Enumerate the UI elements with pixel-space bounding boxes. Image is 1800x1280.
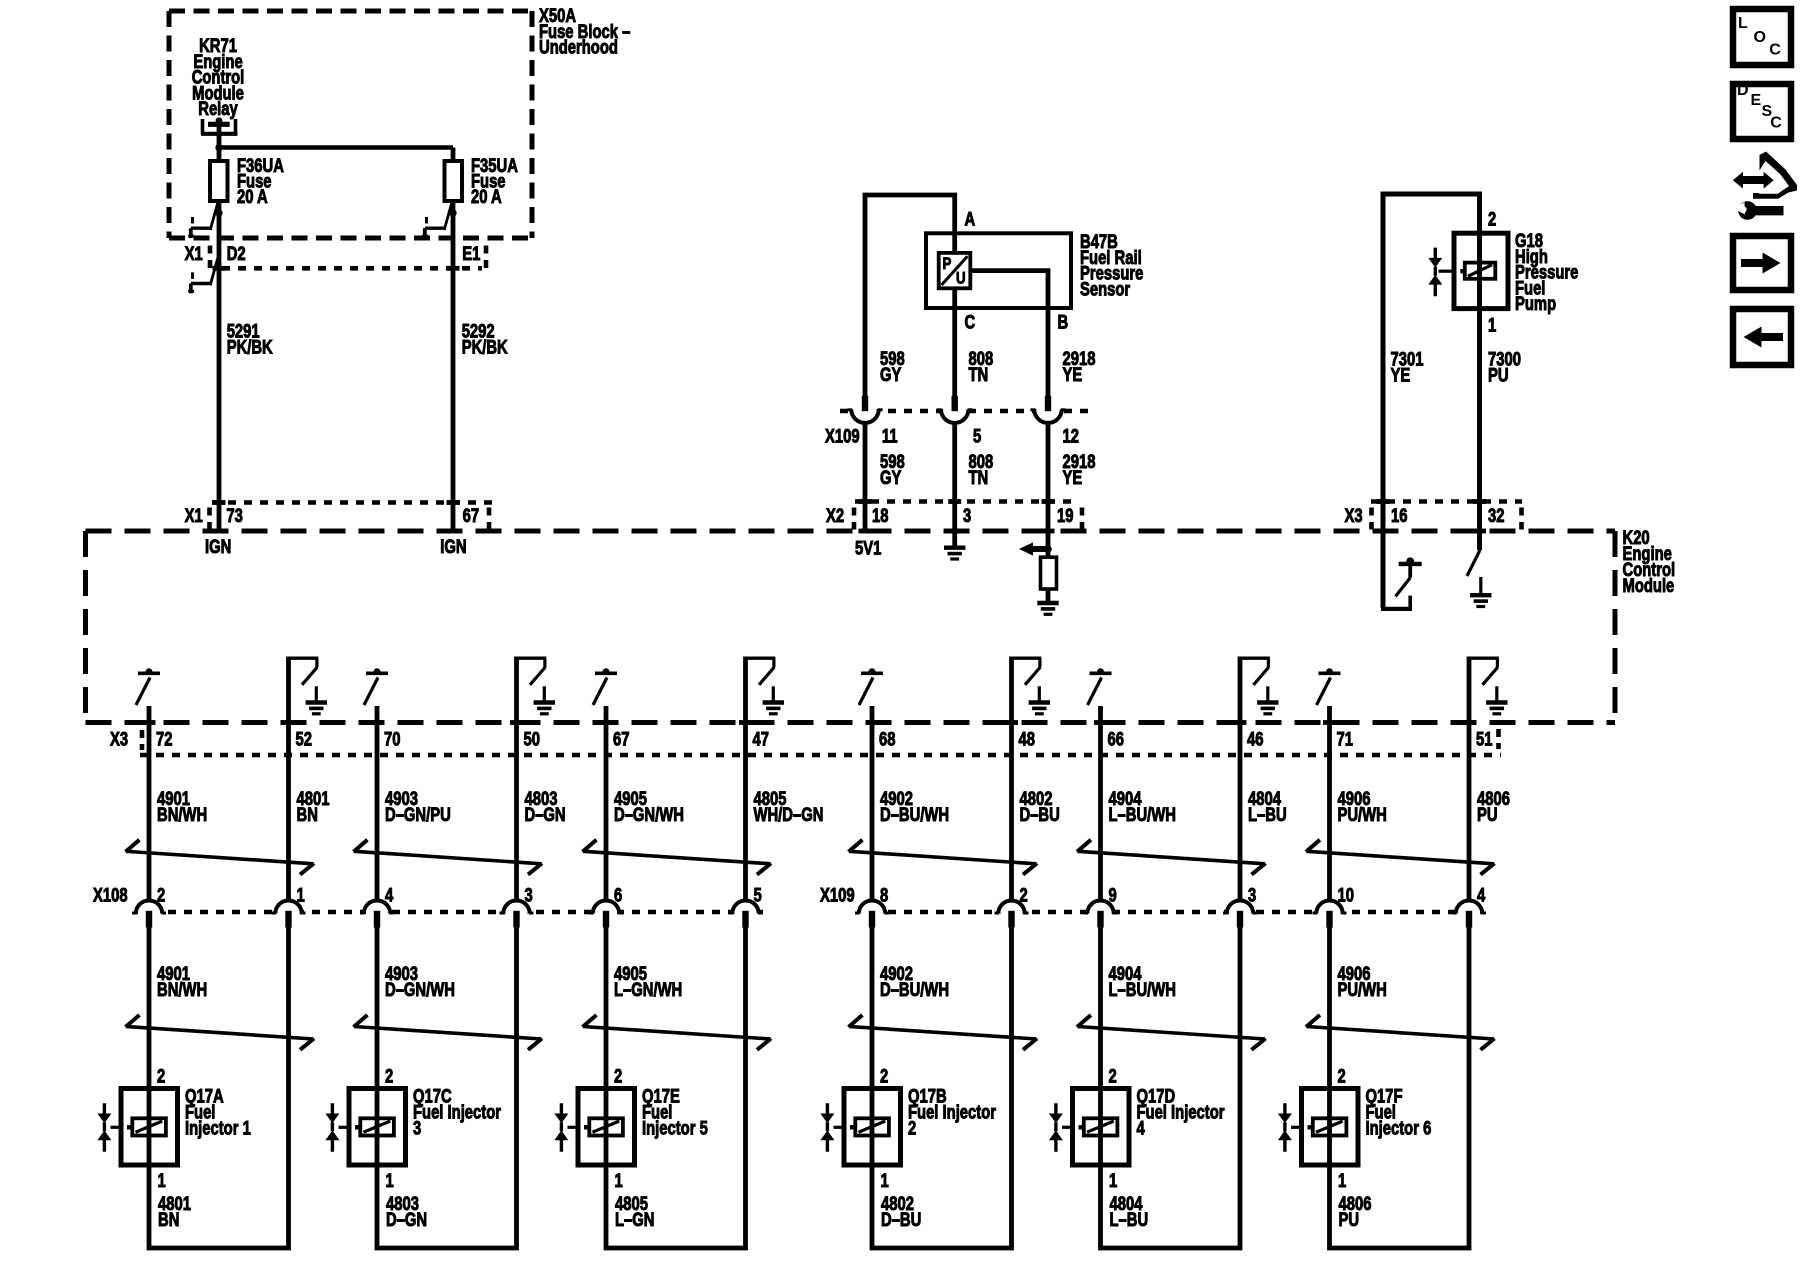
svg-text:46: 46 bbox=[1247, 729, 1263, 750]
svg-text:L: L bbox=[1738, 15, 1748, 32]
svg-text:19: 19 bbox=[1057, 505, 1073, 526]
svg-text:X1: X1 bbox=[185, 505, 203, 526]
svg-text:X1: X1 bbox=[185, 243, 203, 264]
svg-text:O: O bbox=[1754, 29, 1766, 46]
svg-text:A: A bbox=[965, 209, 976, 230]
svg-text:2: 2 bbox=[385, 1066, 393, 1087]
svg-text:KR71EngineControlModuleRelay: KR71EngineControlModuleRelay bbox=[192, 35, 245, 119]
svg-text:67: 67 bbox=[463, 505, 479, 526]
svg-text:B: B bbox=[1058, 312, 1069, 333]
svg-text:1: 1 bbox=[1109, 1170, 1117, 1191]
svg-text:50: 50 bbox=[524, 729, 540, 750]
svg-text:2: 2 bbox=[1338, 1066, 1346, 1087]
svg-text:X2: X2 bbox=[826, 505, 844, 526]
svg-text:11: 11 bbox=[882, 426, 898, 447]
svg-text:2: 2 bbox=[880, 1066, 888, 1087]
svg-text:C: C bbox=[1769, 42, 1781, 59]
svg-text:47: 47 bbox=[753, 729, 769, 750]
svg-text:2: 2 bbox=[1020, 885, 1028, 906]
svg-text:IGN: IGN bbox=[440, 536, 466, 557]
svg-text:C: C bbox=[965, 312, 976, 333]
svg-text:1: 1 bbox=[1488, 315, 1496, 336]
svg-text:18: 18 bbox=[872, 505, 888, 526]
svg-text:10: 10 bbox=[1338, 885, 1354, 906]
svg-text:IGN: IGN bbox=[205, 536, 231, 557]
svg-text:2: 2 bbox=[1109, 1066, 1117, 1087]
svg-text:4: 4 bbox=[1477, 885, 1486, 906]
svg-text:2: 2 bbox=[614, 1066, 622, 1087]
svg-text:598GY: 598GY bbox=[880, 348, 905, 385]
svg-text:72: 72 bbox=[156, 729, 172, 750]
svg-text:X108: X108 bbox=[93, 885, 128, 906]
svg-text:X109: X109 bbox=[820, 885, 855, 906]
svg-text:8: 8 bbox=[880, 885, 888, 906]
svg-text:D: D bbox=[1737, 82, 1749, 99]
svg-text:E1: E1 bbox=[462, 243, 480, 264]
svg-text:X3: X3 bbox=[1345, 505, 1363, 526]
svg-text:32: 32 bbox=[1488, 505, 1504, 526]
svg-text:1: 1 bbox=[615, 1170, 623, 1191]
svg-text:3: 3 bbox=[963, 505, 971, 526]
svg-text:C: C bbox=[1770, 114, 1782, 131]
svg-text:6: 6 bbox=[614, 885, 622, 906]
svg-text:2: 2 bbox=[157, 885, 165, 906]
svg-text:66: 66 bbox=[1108, 729, 1124, 750]
svg-text:51: 51 bbox=[1476, 729, 1492, 750]
svg-text:9: 9 bbox=[1109, 885, 1117, 906]
svg-text:73: 73 bbox=[226, 505, 242, 526]
svg-text:E: E bbox=[1751, 92, 1762, 109]
svg-text:X109: X109 bbox=[825, 426, 860, 447]
svg-text:4804L–BU: 4804L–BU bbox=[1110, 1193, 1149, 1230]
svg-text:5: 5 bbox=[754, 885, 762, 906]
svg-text:4804L–BU: 4804L–BU bbox=[1248, 788, 1287, 825]
svg-text:3: 3 bbox=[1248, 885, 1256, 906]
svg-text:2: 2 bbox=[157, 1066, 165, 1087]
svg-text:P: P bbox=[943, 255, 952, 274]
svg-text:U: U bbox=[956, 269, 966, 288]
svg-text:1: 1 bbox=[881, 1170, 889, 1191]
svg-text:5: 5 bbox=[973, 426, 981, 447]
svg-text:52: 52 bbox=[296, 729, 312, 750]
svg-text:70: 70 bbox=[384, 729, 400, 750]
svg-text:2: 2 bbox=[1488, 209, 1496, 230]
svg-text:598GY: 598GY bbox=[880, 451, 905, 488]
svg-text:1: 1 bbox=[1338, 1170, 1346, 1191]
svg-text:1: 1 bbox=[297, 885, 305, 906]
svg-text:D2: D2 bbox=[227, 243, 246, 264]
svg-text:68: 68 bbox=[879, 729, 895, 750]
svg-text:71: 71 bbox=[1337, 729, 1353, 750]
svg-text:X3: X3 bbox=[110, 729, 128, 750]
svg-text:4: 4 bbox=[385, 885, 394, 906]
svg-text:67: 67 bbox=[613, 729, 629, 750]
svg-text:12: 12 bbox=[1063, 426, 1079, 447]
svg-text:3: 3 bbox=[525, 885, 533, 906]
svg-text:1: 1 bbox=[158, 1170, 166, 1191]
svg-text:48: 48 bbox=[1019, 729, 1035, 750]
svg-text:5V1: 5V1 bbox=[855, 538, 881, 559]
svg-text:16: 16 bbox=[1391, 505, 1407, 526]
svg-text:1: 1 bbox=[386, 1170, 394, 1191]
